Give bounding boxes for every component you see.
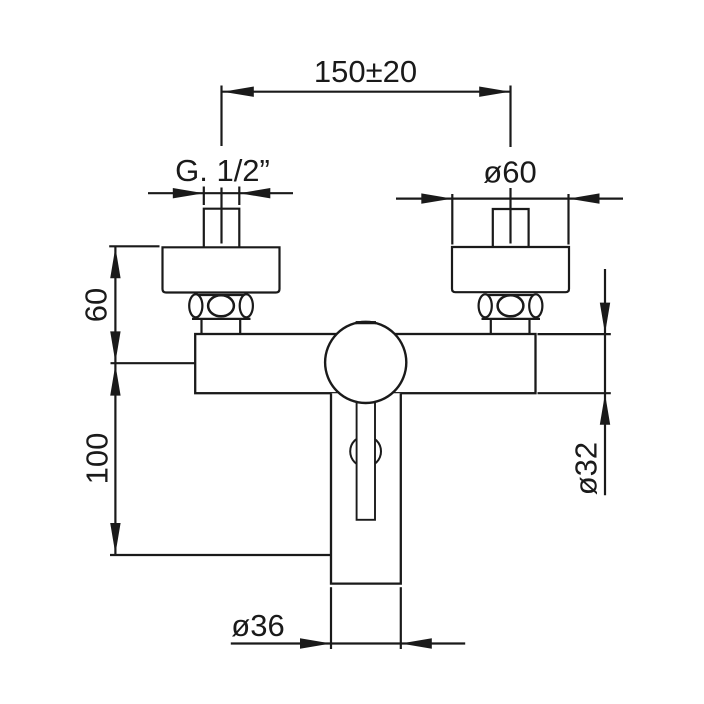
left escutcheon [163, 247, 280, 292]
60 arrow up [110, 247, 120, 278]
60 arrow down [110, 331, 120, 362]
arrow left [223, 87, 254, 97]
o60 arrow right [569, 193, 600, 203]
dim 150+-20 extension line right [509, 86, 511, 148]
right pipe nipple [493, 209, 529, 247]
dim 150+-20 line [223, 91, 511, 93]
G 1/2 arrow right [239, 188, 270, 198]
cartridge cap circle [325, 322, 406, 403]
spout lower extension line right [400, 587, 402, 649]
o60 ext line left [451, 194, 453, 245]
spout lower extension line left [330, 587, 332, 649]
left pipe nipple [204, 209, 240, 248]
o36 arrow right [401, 638, 432, 648]
100 arrow up [110, 365, 120, 396]
dims 60/100 vertical line [114, 246, 116, 555]
o32 arrow up [600, 394, 610, 425]
arrow right [479, 87, 510, 97]
spout [331, 393, 401, 583]
svg-text:ø36: ø36 [231, 608, 284, 643]
G 1/2 arrow left [173, 188, 204, 198]
o32 arrow down [600, 303, 610, 334]
centre line right connector [509, 188, 511, 244]
centre line left connector [220, 188, 222, 244]
left nut [189, 294, 253, 319]
dim o32 ext line bottom [538, 392, 611, 394]
lever screw cap circle [350, 436, 381, 467]
dim o32 vertical line [604, 269, 606, 495]
mixer body [195, 334, 535, 393]
svg-text:150±20: 150±20 [314, 54, 417, 89]
lever [357, 322, 375, 520]
left connector cylinder [200, 320, 202, 335]
o60 arrow left [421, 193, 452, 203]
svg-text:ø60: ø60 [483, 155, 536, 190]
dim o36 line [231, 642, 465, 644]
dim 60/100 middle line [111, 362, 196, 364]
right escutcheon [452, 247, 569, 292]
o36 arrow left [300, 638, 331, 648]
dim o32 ext line top [538, 333, 611, 335]
lever top edge over circle [356, 322, 376, 324]
dim 150+-20 extension line left [220, 86, 222, 147]
dim 60 top extension line [109, 245, 159, 247]
svg-text:ø32: ø32 [569, 442, 604, 495]
right nut [479, 294, 543, 319]
dim G 1/2 line [148, 192, 293, 194]
dim o60 line [396, 198, 623, 200]
svg-text:60: 60 [79, 288, 114, 322]
o60 ext line right [567, 194, 569, 245]
G 1/2 ext stub right [238, 187, 240, 206]
right connector cylinder [490, 320, 492, 335]
svg-text:100: 100 [80, 433, 115, 485]
100 arrow down [110, 523, 120, 554]
G 1/2 ext stub left [203, 187, 205, 206]
dim 100 bottom line [110, 554, 331, 556]
svg-text:G. 1/2”: G. 1/2” [175, 153, 270, 188]
